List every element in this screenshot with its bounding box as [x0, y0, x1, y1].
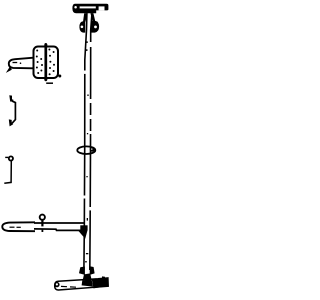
foot wedge	[82, 273, 94, 286]
arm bottom line	[34, 229, 81, 231]
handle bar (top crank)	[72, 4, 108, 13]
pawl paddle body (detached part, upper left)	[34, 44, 59, 81]
lower collar flare right	[90, 266, 95, 275]
base plate center dashes	[61, 285, 76, 288]
lower collar flare left	[79, 267, 85, 275]
eye pin (detached part, lower left)	[4, 156, 13, 183]
collar ring on shaft	[77, 146, 95, 154]
bracket clip (detached part, mid left)	[9, 95, 16, 126]
pawl paddle stipple dots	[36, 49, 55, 76]
foot wedge lower part over base plate	[82, 279, 93, 286]
arm hub block on shaft	[80, 225, 87, 230]
speck below paddle	[46, 82, 53, 84]
gusset wedge below arm	[78, 230, 88, 239]
shaft stipple marks	[85, 41, 89, 262]
arm handle oval	[2, 222, 35, 231]
base plate outline	[55, 278, 108, 290]
yoke left hanger leg	[83, 13, 88, 22]
shaft left line	[84, 13, 87, 270]
base plate left eye	[54, 282, 59, 287]
yoke left hook loop	[79, 21, 85, 32]
yoke right hook loop	[91, 21, 99, 33]
base plate dark right end	[92, 278, 108, 289]
pawl paddle neck	[7, 58, 34, 72]
shaft line breaks	[83, 42, 91, 210]
arm pivot bolt	[40, 215, 45, 232]
speck near paddle corner	[58, 75, 61, 78]
base plate right tip tick	[102, 276, 105, 281]
arm top line	[34, 222, 85, 224]
yoke right hanger leg	[90, 13, 95, 21]
shaft right line	[90, 13, 92, 270]
